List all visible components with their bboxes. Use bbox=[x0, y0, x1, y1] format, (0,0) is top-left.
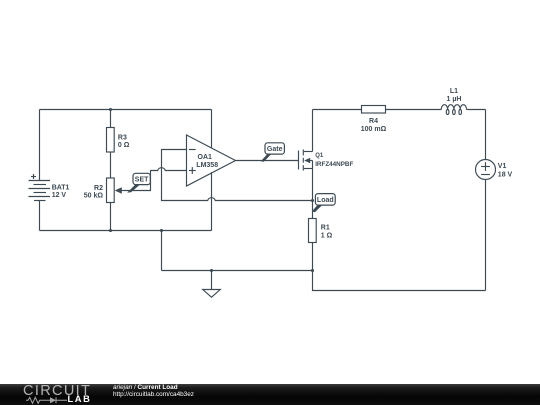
wire ground rail bbox=[162, 270, 313, 272]
battery BAT1 bbox=[29, 110, 51, 231]
svg-text:R1: R1 bbox=[321, 225, 330, 232]
potentiometer R2 label bbox=[84, 185, 104, 200]
CircuitLab logo wordmark LAB bbox=[68, 395, 92, 404]
wire bottom rail of left loop bbox=[40, 230, 212, 232]
label flag Gate bbox=[261, 143, 285, 162]
op-amp OA1 label bbox=[196, 154, 218, 169]
resistor R3 label bbox=[118, 134, 130, 149]
CircuitLab logo zigzag diode bbox=[26, 396, 72, 405]
wire Q1 source down to Load node bbox=[312, 169, 314, 201]
svg-text:12 V: 12 V bbox=[52, 192, 67, 199]
wire op-amp minus input feedback down to Load net (hop over x=211.5) bbox=[162, 150, 313, 201]
svg-text:0 Ω: 0 Ω bbox=[118, 142, 130, 149]
ground bbox=[203, 271, 221, 298]
voltage source V1 bbox=[476, 160, 496, 291]
svg-text:Gate: Gate bbox=[267, 146, 283, 153]
svg-text:R3: R3 bbox=[118, 134, 127, 141]
resistor R1 bbox=[309, 201, 317, 271]
wire op-amp V+ pin to top rail bbox=[211, 110, 213, 148]
svg-text:100 mΩ: 100 mΩ bbox=[361, 126, 387, 133]
resistor R4 bbox=[362, 106, 442, 114]
svg-text:V1: V1 bbox=[498, 163, 507, 170]
voltage source V1 label bbox=[498, 163, 513, 178]
resistor R1 label bbox=[321, 225, 333, 240]
wire top rail of left loop bbox=[40, 109, 212, 111]
transistor Q1 bbox=[299, 149, 313, 170]
svg-text:OA1: OA1 bbox=[198, 154, 213, 161]
wire Q1 drain up to top rail bbox=[312, 110, 314, 152]
svg-text:1 Ω: 1 Ω bbox=[321, 233, 333, 240]
label flag Load bbox=[312, 194, 335, 213]
battery BAT1 label bbox=[52, 184, 70, 199]
CircuitLab logo wordmark CIRCUIT bbox=[23, 383, 91, 399]
transistor Q1 label bbox=[315, 153, 353, 168]
wire R1 bottom to right loop bottom bbox=[313, 271, 486, 291]
node junction R1 bottom to ground rail bbox=[311, 269, 314, 272]
svg-text:Load: Load bbox=[317, 197, 334, 204]
resistor R4 label bbox=[361, 118, 387, 133]
footer title text bbox=[113, 384, 194, 398]
svg-text:Q1: Q1 bbox=[315, 153, 324, 159]
svg-text:SET: SET bbox=[135, 177, 149, 184]
svg-text:BAT1: BAT1 bbox=[52, 184, 70, 191]
wire op-amp output to gate bbox=[236, 160, 299, 162]
op-amp OA1 bbox=[187, 135, 236, 186]
inductor L1 label bbox=[447, 88, 462, 103]
node junction at R3 top bbox=[109, 108, 112, 111]
wire right rail down to V1 bbox=[485, 110, 487, 160]
resistor R3 bbox=[107, 110, 115, 179]
wire op-amp V- pin down to bottom rail bbox=[211, 172, 213, 230]
svg-text:R2: R2 bbox=[94, 185, 103, 192]
node junction R2 bottom bbox=[109, 229, 112, 232]
svg-text:LM358: LM358 bbox=[196, 162, 218, 169]
node junction at ground symbol bbox=[210, 269, 213, 272]
svg-text:L1: L1 bbox=[450, 88, 458, 95]
wire ground branch vertical bbox=[161, 231, 163, 271]
svg-text:IRFZ44NPBF: IRFZ44NPBF bbox=[315, 161, 353, 168]
node junction Load bbox=[311, 199, 314, 202]
wire R2 wiper to op-amp plus input (hop over x=161.5) bbox=[124, 168, 187, 191]
node junction ground branch bbox=[160, 229, 163, 232]
svg-text:1 µH: 1 µH bbox=[447, 96, 462, 103]
svg-text:50 kΩ: 50 kΩ bbox=[84, 192, 104, 199]
label flag SET bbox=[127, 173, 150, 192]
inductor L1 bbox=[441, 105, 485, 115]
CircuitLab footer bar bbox=[0, 384, 540, 405]
svg-text:R4: R4 bbox=[369, 118, 378, 125]
svg-text:18 V: 18 V bbox=[498, 171, 513, 178]
potentiometer R2 bbox=[107, 178, 125, 231]
wire top rail right section bbox=[313, 109, 362, 111]
